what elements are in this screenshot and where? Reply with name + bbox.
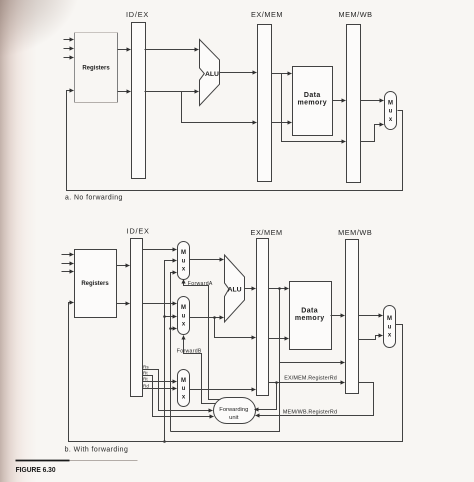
junction store data tap — [213, 316, 216, 319]
svg-text:MEM/WB: MEM/WB — [338, 10, 372, 19]
wire ID/EX to ForwardB mux top input — [143, 303, 177, 305]
wire read input 2 (a) — [64, 48, 74, 50]
wire MEM/WB to mux upper input (a) — [361, 100, 384, 102]
wire read data 2 to ID/EX (b) — [117, 303, 130, 305]
svg-text:MEM/WB.RegisterRd: MEM/WB.RegisterRd — [283, 409, 337, 415]
junction write-back feedback at bottom line — [163, 440, 166, 443]
svg-text:M: M — [181, 305, 186, 311]
wire read input 3 (b) — [62, 271, 74, 273]
wire MEM/WB.RegisterRd to forwarding unit — [256, 383, 374, 416]
svg-text:ID/EX: ID/EX — [126, 10, 149, 19]
svg-text:M: M — [181, 250, 186, 256]
wire EX/MEM to data memory address (a) — [272, 73, 292, 75]
mux M3 ForwardB — [178, 297, 190, 335]
junction write-back feedback at ForwardB branch — [163, 315, 166, 318]
wire write-back value feedback to ForwardA mux middle input — [165, 261, 177, 442]
svg-text:ForwardB: ForwardB — [177, 348, 202, 354]
wire EX/MEM ALU result branch to ForwardB mux bottom input — [171, 328, 177, 330]
wire ForwardA control from forwarding unit — [184, 280, 221, 400]
figure rule dark segment — [16, 460, 70, 462]
wire Rs to forwarding unit — [143, 370, 213, 411]
svg-text:ID/EX: ID/EX — [127, 227, 150, 236]
svg-text:EX/MEM: EX/MEM — [251, 228, 283, 237]
wire memory read data to MEM/WB (b) — [331, 315, 345, 317]
pipeline register ID/EX (b) — [131, 239, 143, 397]
wire ALU result to EX/MEM (b) — [245, 288, 256, 290]
wire memory read data to MEM/WB (a) — [333, 100, 346, 102]
svg-text:Rt: Rt — [143, 371, 148, 376]
mux M4 Rt/Rd destination — [178, 370, 190, 407]
svg-text:u: u — [182, 314, 186, 320]
wire read input 1 (b) — [62, 254, 74, 256]
wire write-back loop to Registers (a) — [67, 91, 403, 191]
wire write-back loop to Registers (b) — [69, 303, 403, 442]
svg-text:u: u — [389, 109, 393, 115]
wire ForwardB control from forwarding unit — [184, 336, 216, 404]
wire MEM/WB ALU value to write-back mux lower input — [359, 336, 383, 340]
mux M1 write-back (a) — [385, 92, 397, 130]
svg-text:Data: Data — [301, 308, 318, 315]
wire read input 1 (a) — [64, 39, 74, 41]
pipeline register MEM/WB (b) — [346, 240, 359, 394]
wire ID/EX to ALU upper input (a) — [145, 49, 199, 51]
svg-text:M: M — [181, 378, 186, 384]
wire Rt to destination mux — [143, 381, 177, 383]
wire read data 1 to ID/EX (b) — [117, 265, 130, 267]
svg-text:FIGURE 6.30: FIGURE 6.30 — [16, 465, 56, 474]
svg-text:M: M — [388, 101, 393, 107]
ALU U2 (b) — [225, 255, 245, 322]
svg-text:memory: memory — [295, 315, 325, 322]
svg-text:MEM/WB: MEM/WB — [338, 228, 372, 237]
wire read input 2 (b) — [62, 263, 74, 265]
wire ALU result forwarding tap down and back — [171, 289, 280, 432]
wire EX/MEM to data memory write data (a) — [272, 122, 292, 124]
svg-text:u: u — [182, 259, 186, 265]
wire Rt to forwarding unit — [143, 376, 214, 417]
mux M2 ForwardA — [178, 242, 190, 280]
wire EX/MEM to data memory write data (b) — [269, 338, 289, 340]
ALU U1 (a) — [200, 40, 220, 106]
wire ID/EX to ForwardA mux top input — [143, 249, 177, 251]
register file Registers (a) — [74, 33, 76, 103]
junction ALU result feedback at ForwardB branch — [169, 327, 172, 330]
wire ForwardA mux to ALU upper input — [190, 259, 224, 261]
svg-text:Data: Data — [304, 92, 321, 99]
pipeline register EX/MEM (a) — [258, 25, 272, 182]
svg-text:Rd: Rd — [143, 384, 149, 389]
wire store data tap to EX/MEM (b) — [215, 318, 256, 338]
wire Rt/Rd mux to EX/MEM — [190, 389, 256, 391]
wire Rd to destination mux — [143, 388, 177, 390]
wire read data 2 to ID/EX (a) — [118, 91, 131, 93]
page top-left scan shadow — [0, 0, 110, 90]
junction ALU result tap — [278, 287, 281, 290]
wire MEM/WB ALU value to mux lower input (a) — [361, 125, 384, 142]
wire ForwardB mux to ALU lower input — [190, 317, 224, 319]
svg-text:Rs: Rs — [143, 364, 149, 369]
wire EX/MEM.RegisterRd to MEM/WB — [269, 382, 345, 384]
register file Registers (b) — [75, 250, 117, 318]
svg-text:a. No forwarding: a. No forwarding — [65, 195, 123, 202]
svg-text:ALU: ALU — [205, 71, 219, 78]
wire EX/MEM to data memory address (b) — [269, 288, 289, 290]
wire ID/EX to ALU lower input (a) — [145, 91, 199, 93]
data memory (b) — [290, 282, 332, 350]
wire EX/MEM.RegisterRd down to forwarding unit — [255, 383, 277, 410]
wire ALU result to EX/MEM (a) — [220, 72, 257, 74]
wire MEM/WB to write-back mux top input — [359, 315, 383, 317]
pipeline register ID/EX (a) — [132, 23, 146, 179]
page left scan shadow — [0, 0, 38, 482]
mux M5 write-back (b) — [384, 306, 396, 348]
svg-text:b. With forwarding: b. With forwarding — [65, 447, 129, 454]
svg-text:EX/MEM.RegisterRd: EX/MEM.RegisterRd — [284, 376, 337, 382]
svg-text:EX/MEM: EX/MEM — [251, 10, 283, 19]
svg-text:u: u — [182, 386, 186, 392]
pipeline register MEM/WB (a) — [347, 25, 361, 183]
wire read input 3 (a) — [64, 57, 74, 59]
pipeline register EX/MEM (b) — [257, 239, 269, 396]
forwarding unit U3 — [214, 398, 256, 424]
svg-text:Registers: Registers — [82, 66, 110, 72]
svg-text:memory: memory — [297, 100, 327, 107]
wire read data 1 to ID/EX (a) — [118, 49, 131, 51]
figure rule light segment — [70, 460, 138, 462]
svg-text:ForwardA: ForwardA — [188, 281, 213, 287]
wire ALU result bypass to MEM/WB (b) — [280, 362, 345, 364]
svg-text:u: u — [388, 325, 392, 331]
svg-text:Forwarding: Forwarding — [219, 407, 248, 413]
wire store data branch to EX/MEM (a) — [182, 92, 257, 123]
svg-text:Rt: Rt — [143, 377, 148, 382]
wire write-back value branch to ForwardB mux middle input — [165, 316, 177, 318]
svg-text:M: M — [387, 316, 392, 322]
wire ALU result bypass to MEM/WB (a) — [282, 74, 346, 142]
svg-text:Registers: Registers — [81, 281, 109, 287]
svg-text:ALU: ALU — [228, 286, 242, 293]
data memory (a) — [293, 67, 333, 136]
junction EX/MEM.RegisterRd — [275, 381, 278, 384]
svg-text:unit: unit — [229, 415, 239, 421]
wire EX/MEM ALU result feedback to ForwardA mux bottom input — [171, 273, 177, 432]
